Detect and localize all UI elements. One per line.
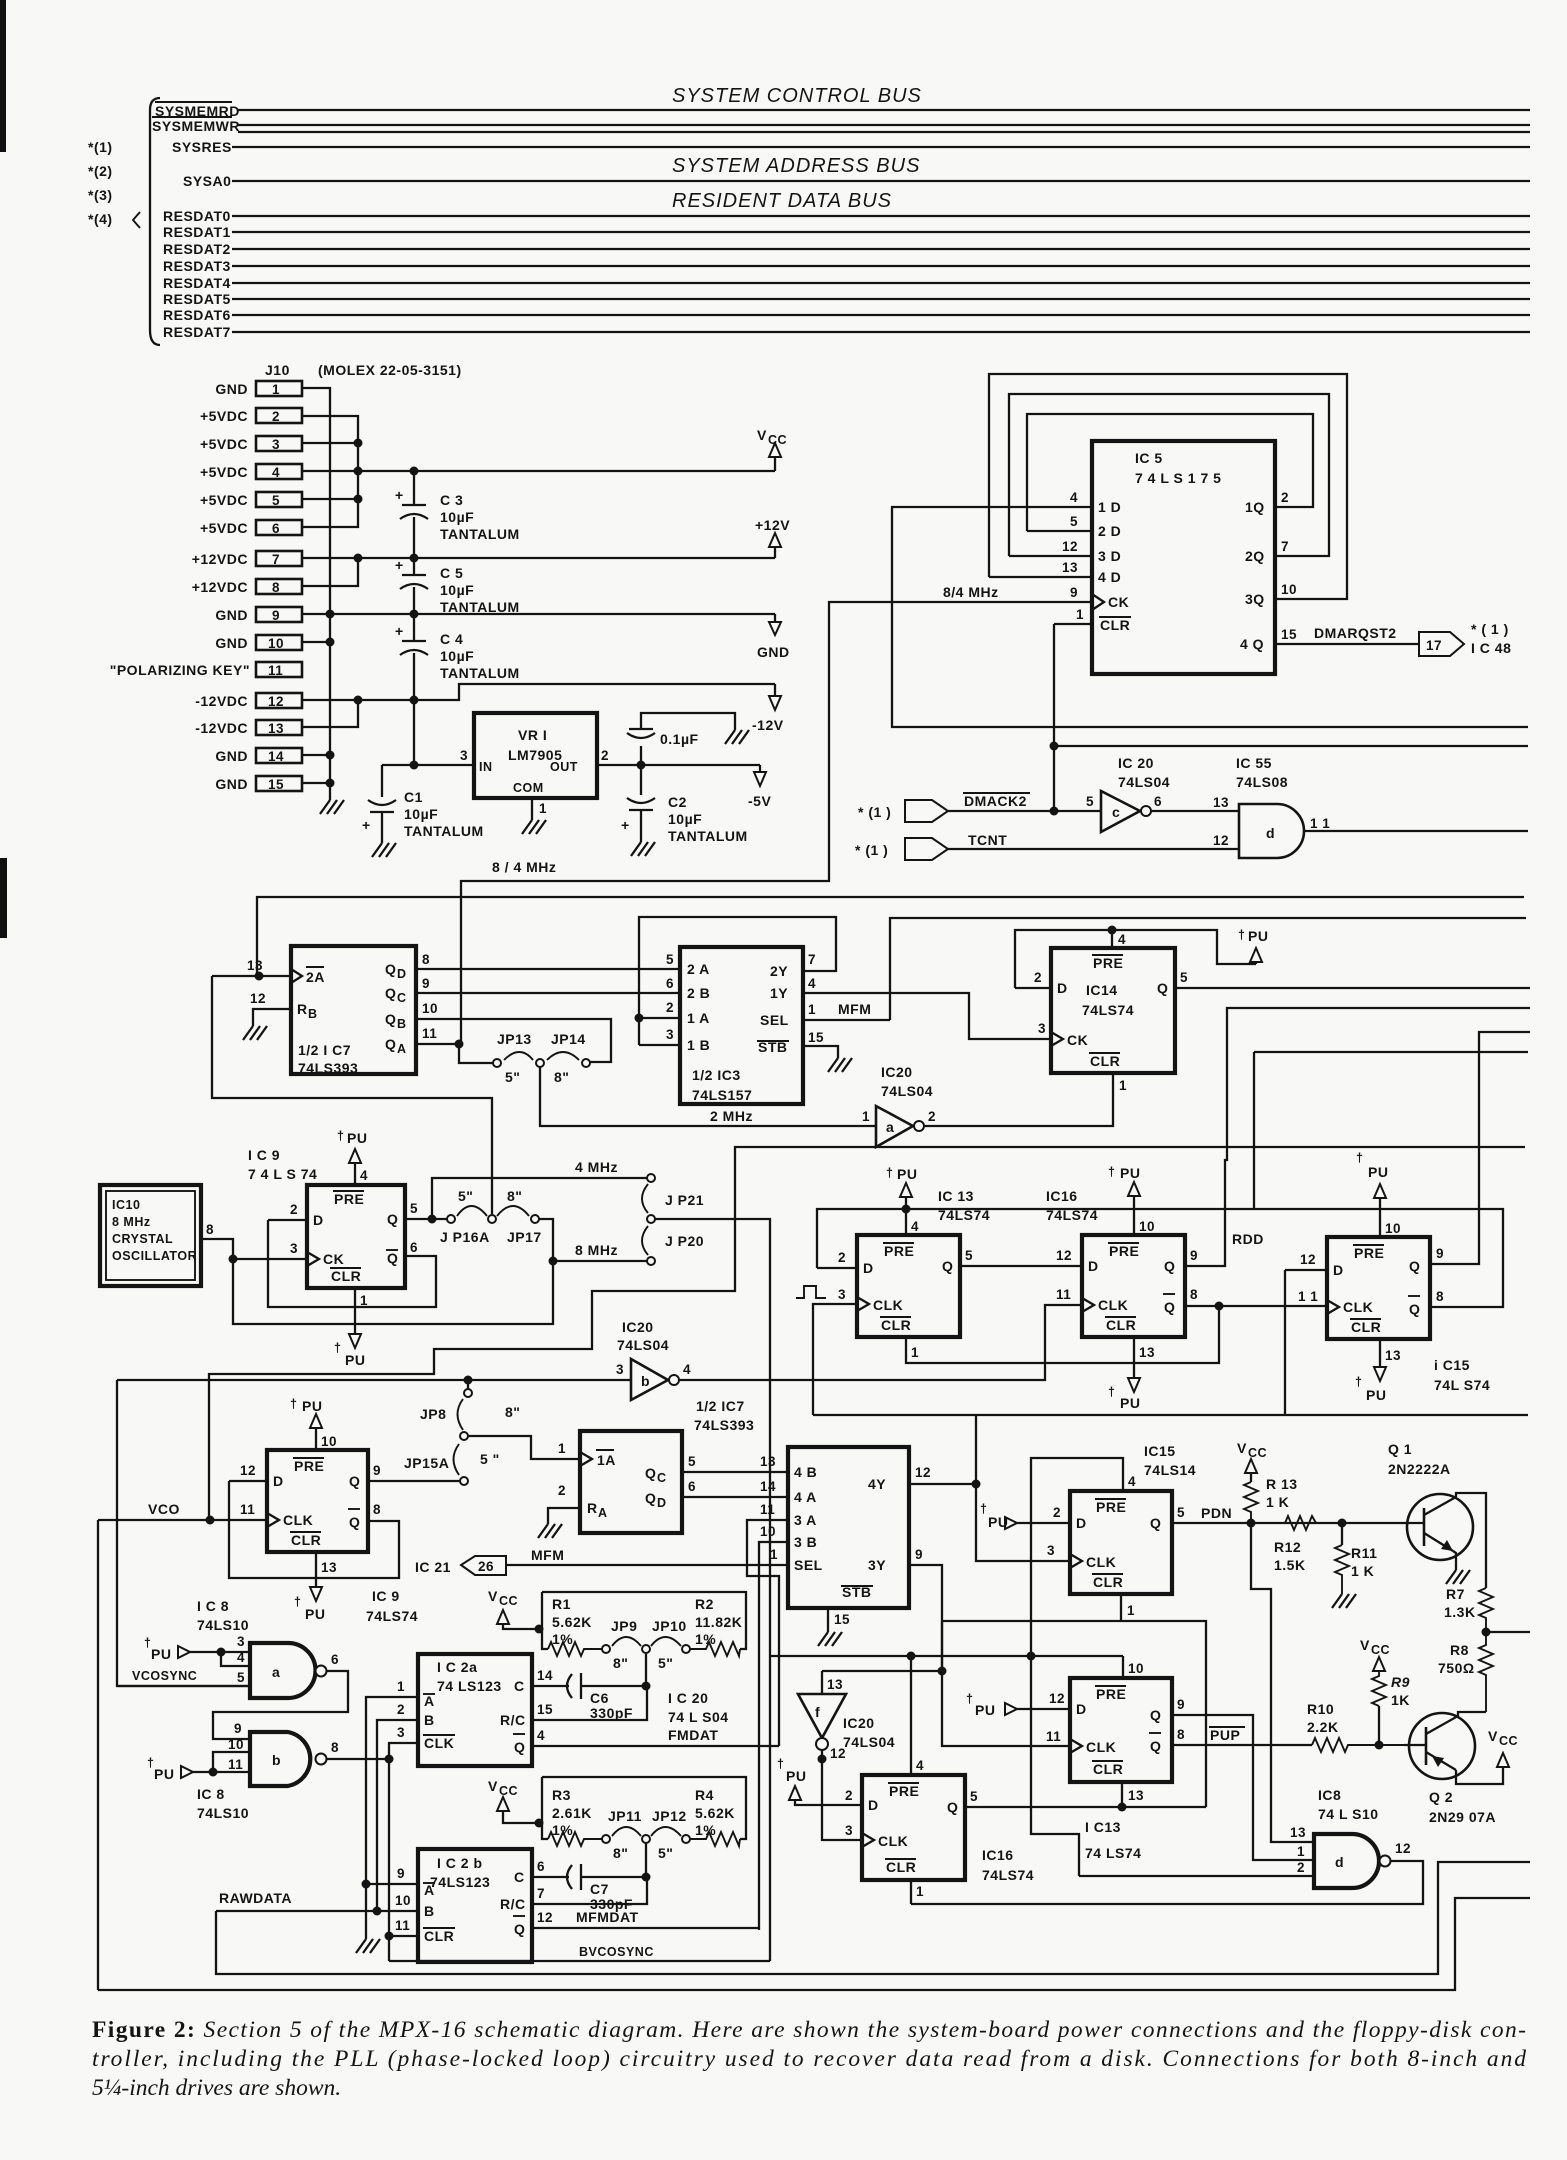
svg-text:R3: R3 — [552, 1787, 571, 1803]
svg-text:1: 1 — [360, 1293, 368, 1308]
bus bracket — [150, 98, 160, 345]
wire -12V trunk — [302, 700, 358, 727]
svg-text:C: C — [657, 1471, 667, 1485]
svg-text:C1: C1 — [404, 789, 423, 805]
svg-text:9: 9 — [272, 608, 280, 623]
pin 1 CLR to IC16 Qbar — [906, 1306, 1219, 1363]
svg-text:1/2 IC7: 1/2 IC7 — [696, 1398, 745, 1414]
svg-text:74LS04: 74LS04 — [617, 1337, 669, 1353]
power VCC arrow — [757, 427, 787, 471]
svg-text:IC16: IC16 — [1046, 1188, 1078, 1204]
svg-text:9: 9 — [1070, 585, 1078, 600]
svg-text:D: D — [1057, 980, 1068, 996]
wire PU-line branch to edge — [1254, 1051, 1528, 1053]
svg-text:1: 1 — [1119, 1078, 1127, 1093]
wire VCO left edge down — [97, 1520, 99, 1990]
svg-text:2: 2 — [1297, 1860, 1305, 1875]
svg-text:IC 5: IC 5 — [1135, 450, 1163, 466]
svg-text:13: 13 — [1385, 1348, 1401, 1363]
wire 1Y to IC14 CK — [803, 993, 1051, 1039]
inverter U20f 74LS04 — [798, 1694, 846, 1738]
svg-text:3: 3 — [838, 1287, 846, 1302]
svg-text:26: 26 — [478, 1559, 494, 1574]
svg-text:2A: 2A — [306, 969, 325, 985]
svg-text:8": 8" — [507, 1188, 522, 1204]
pin 10 PRE stub — [1122, 1656, 1124, 1678]
pin 2 D — [1015, 987, 1051, 989]
wire AND d output — [1304, 830, 1528, 832]
wire R7/R8 node to edge — [1486, 1631, 1530, 1633]
svg-text:750Ω: 750Ω — [1438, 1660, 1475, 1676]
pin 12 3D — [1009, 555, 1092, 557]
svg-text:8/4 MHz: 8/4 MHz — [943, 584, 999, 600]
svg-text:13: 13 — [247, 958, 263, 973]
svg-text:3: 3 — [666, 1027, 674, 1042]
wire Abar ground — [365, 1884, 367, 1939]
svg-text:9: 9 — [397, 1866, 405, 1881]
svg-text:MFMDAT: MFMDAT — [576, 1909, 639, 1925]
svg-text:4: 4 — [808, 976, 816, 991]
wire PRE/PU tie line y1209 — [817, 1209, 1503, 1307]
svg-text:13: 13 — [1128, 1788, 1144, 1803]
wire QA to JP13 — [459, 1044, 493, 1063]
pin 3 CLK — [389, 1743, 418, 1961]
wire long line y897 — [257, 897, 1524, 976]
svg-text:†: † — [290, 1397, 297, 1411]
svg-text:CC: CC — [499, 1594, 518, 1608]
svg-text:SYSTEM CONTROL BUS: SYSTEM CONTROL BUS — [672, 85, 922, 107]
svg-text:J P20: J P20 — [665, 1233, 704, 1249]
pin 6 C — [532, 1876, 569, 1878]
svg-text:8 MHz: 8 MHz — [575, 1242, 618, 1258]
svg-text:IC 20: IC 20 — [1118, 755, 1154, 771]
svg-text:10µF: 10µF — [668, 811, 702, 827]
svg-text:3: 3 — [397, 1725, 405, 1740]
svg-text:7 4 L S 74: 7 4 L S 74 — [248, 1166, 317, 1182]
svg-text:R: R — [587, 1500, 598, 1516]
svg-text:3: 3 — [1038, 1021, 1046, 1036]
capacitor C6 330pF — [567, 1673, 646, 1721]
wire 4Q DMARQST2 — [1275, 643, 1419, 645]
svg-text:1: 1 — [1076, 607, 1084, 622]
svg-text:Q: Q — [349, 1514, 360, 1530]
wire VCO long loop from right — [209, 1147, 1525, 1520]
pin 8 QD — [416, 968, 678, 970]
svg-text:†: † — [294, 1595, 301, 1609]
svg-text:17: 17 — [1426, 638, 1442, 653]
svg-text:8": 8" — [613, 1655, 628, 1671]
svg-text:74LS74: 74LS74 — [1082, 1002, 1134, 1018]
svg-text:Q: Q — [349, 1473, 360, 1489]
ground (RB) — [243, 1026, 267, 1040]
svg-text:5": 5" — [658, 1845, 673, 1861]
svg-text:i C15: i C15 — [1434, 1357, 1470, 1373]
svg-text:TANTALUM: TANTALUM — [440, 599, 520, 615]
jumper JP15A — [460, 1477, 468, 1485]
svg-text:c: c — [1112, 804, 1120, 820]
svg-text:9: 9 — [422, 976, 430, 991]
jumper JP10 — [682, 1645, 690, 1653]
svg-text:B: B — [424, 1712, 435, 1728]
svg-text:D: D — [1088, 1258, 1099, 1274]
jumper JP14 — [582, 1059, 590, 1067]
svg-text:+5VDC: +5VDC — [200, 408, 248, 424]
IC U2b 74LS123 — [418, 1849, 532, 1962]
svg-text:8": 8" — [613, 1845, 628, 1861]
svg-text:CLR: CLR — [1106, 1317, 1136, 1333]
IC U7a 74LS393 — [291, 946, 416, 1074]
svg-text:†: † — [1108, 1385, 1115, 1399]
svg-text:PRE: PRE — [889, 1783, 919, 1799]
svg-text:8: 8 — [422, 952, 430, 967]
wire 2Q to 3D loop — [1009, 394, 1329, 556]
pin 4 1D — [989, 506, 1092, 508]
wire MFM long line y918 — [890, 918, 1526, 1020]
svg-text:13: 13 — [1290, 1825, 1306, 1840]
svg-text:11: 11 — [240, 1502, 255, 1517]
svg-text:1.3K: 1.3K — [1444, 1604, 1476, 1620]
svg-text:V: V — [1237, 1440, 1247, 1456]
svg-text:5.62K: 5.62K — [552, 1614, 592, 1630]
svg-text:PU: PU — [1366, 1387, 1386, 1403]
pin 12 RB — [253, 1009, 291, 1026]
svg-text:†: † — [337, 1129, 344, 1143]
svg-text:1: 1 — [916, 1884, 924, 1899]
svg-text:3: 3 — [845, 1823, 853, 1838]
svg-text:C 4: C 4 — [440, 631, 463, 647]
svg-text:V: V — [1488, 1728, 1498, 1744]
jumper JP17 — [531, 1215, 539, 1223]
svg-text:b: b — [272, 1752, 281, 1768]
svg-text:+: + — [395, 557, 404, 573]
svg-text:1%: 1% — [552, 1822, 573, 1838]
svg-text:4Y: 4Y — [868, 1476, 886, 1492]
NAND U8b 74LS10 — [250, 1732, 310, 1786]
svg-text:Q: Q — [1150, 1738, 1161, 1754]
svg-text:13: 13 — [760, 1454, 776, 1469]
svg-text:V: V — [1360, 1637, 1370, 1653]
svg-text:PRE: PRE — [1093, 955, 1123, 971]
wire STB to ground — [803, 1046, 838, 1058]
svg-text:PU: PU — [897, 1166, 917, 1182]
svg-text:4: 4 — [683, 1362, 691, 1377]
svg-text:4 D: 4 D — [1098, 569, 1121, 585]
svg-text:D: D — [1076, 1515, 1087, 1531]
wire JP9/10 mid to C node — [645, 1653, 647, 1686]
pin 8 Qbar PUP — [1172, 1744, 1312, 1746]
svg-text:CK: CK — [1108, 594, 1129, 610]
IC U3a 74LS157 — [680, 947, 803, 1104]
power -12V arrow down — [752, 684, 784, 733]
wire +12V rail — [302, 557, 775, 559]
svg-text:†: † — [980, 1502, 987, 1516]
svg-text:PU: PU — [347, 1130, 367, 1146]
svg-text:D: D — [1076, 1701, 1087, 1717]
svg-text:*(1): *(1) — [88, 139, 113, 155]
pin 13 4D — [989, 576, 1092, 578]
svg-text:IC 55: IC 55 — [1236, 755, 1272, 771]
svg-text:RESIDENT DATA BUS: RESIDENT DATA BUS — [672, 190, 892, 212]
svg-text:12: 12 — [830, 1746, 846, 1761]
svg-text:1Y: 1Y — [770, 985, 788, 1001]
svg-text:15: 15 — [268, 777, 284, 792]
svg-text:PUP: PUP — [1210, 1727, 1240, 1743]
svg-text:5: 5 — [965, 1248, 973, 1263]
svg-text:Q: Q — [514, 1921, 525, 1937]
capacitor C5 10uF TANTALUM — [395, 557, 520, 615]
svg-text:12: 12 — [240, 1463, 256, 1478]
svg-text:CLR: CLR — [1093, 1574, 1123, 1590]
capacitor C4 10uF TANTALUM — [395, 614, 520, 700]
svg-text:2Q: 2Q — [1245, 548, 1265, 564]
svg-text:4 Q: 4 Q — [1240, 636, 1264, 652]
svg-text:IN: IN — [479, 760, 493, 774]
svg-text:A: A — [424, 1882, 435, 1898]
svg-text:I C 2 b: I C 2 b — [437, 1855, 483, 1871]
power VCC (R1 net) — [488, 1588, 544, 1634]
svg-text:A: A — [397, 1042, 407, 1056]
pin 4 PRE — [1111, 930, 1113, 948]
jumper JP20 — [647, 1257, 655, 1265]
svg-text:IC16: IC16 — [982, 1847, 1014, 1863]
svg-text:5: 5 — [1070, 514, 1078, 529]
connector J10 pin 4 — [256, 464, 302, 479]
svg-text:J10: J10 — [265, 362, 290, 378]
svg-text:CLR: CLR — [331, 1268, 361, 1284]
wire inverter a out to IC14 CLR — [924, 1073, 1113, 1126]
resistor R8 750ohm — [1438, 1632, 1493, 1712]
connector J10 pin 8 — [256, 579, 302, 594]
svg-text:12: 12 — [1056, 1248, 1072, 1263]
pin 4 PRE + PU — [337, 1129, 368, 1185]
jumper JP11 — [602, 1835, 610, 1843]
svg-text:4: 4 — [360, 1168, 368, 1183]
svg-text:C 5: C 5 — [440, 565, 463, 581]
svg-text:†: † — [886, 1166, 893, 1180]
wire VCOSYNC/b-input line — [117, 1379, 631, 1381]
svg-text:C: C — [514, 1869, 525, 1885]
svg-text:9: 9 — [915, 1547, 923, 1562]
svg-text:R8: R8 — [1450, 1642, 1469, 1658]
connector J10 pin 7 — [256, 551, 302, 566]
pin 12 Qbar MFMDAT — [532, 1927, 759, 1929]
svg-text:Q: Q — [385, 961, 396, 977]
svg-text:11: 11 — [228, 1757, 243, 1772]
wire Q5 up to 74LS14 CLR — [942, 1621, 1206, 1807]
svg-text:IC20: IC20 — [622, 1319, 654, 1335]
svg-text:PRE: PRE — [1109, 1243, 1139, 1259]
svg-text:PU: PU — [345, 1352, 365, 1368]
svg-text:PRE: PRE — [1096, 1499, 1126, 1515]
svg-text:4: 4 — [272, 465, 280, 480]
svg-text:4: 4 — [1128, 1474, 1136, 1489]
pin 5 Q — [1175, 987, 1530, 989]
svg-text:VR I: VR I — [518, 727, 547, 743]
wire CLK from 4Y line — [813, 1304, 857, 1415]
svg-text:GND: GND — [215, 607, 248, 623]
jumper JP21 — [647, 1174, 655, 1182]
wire 4Y branch — [909, 1483, 976, 1485]
connector J10 pin 15 — [256, 776, 302, 791]
svg-text:1: 1 — [862, 1109, 870, 1124]
scan edge artifact top-left — [0, 0, 6, 152]
svg-text:10: 10 — [395, 1893, 411, 1908]
svg-text:+12V: +12V — [755, 517, 790, 533]
svg-text:RESDAT7: RESDAT7 — [163, 324, 231, 340]
svg-text:CLK: CLK — [878, 1833, 908, 1849]
svg-text:CLR: CLR — [1093, 1761, 1123, 1777]
svg-text:1: 1 — [1297, 1844, 1305, 1859]
svg-text:GND: GND — [215, 635, 248, 651]
wire OUT row — [597, 764, 760, 766]
svg-text:5: 5 — [970, 1789, 978, 1804]
pin 12 D — [229, 1480, 267, 1482]
svg-text:12: 12 — [537, 1910, 553, 1925]
svg-text:9: 9 — [234, 1721, 242, 1736]
svg-text:OSCILLATOR: OSCILLATOR — [112, 1249, 197, 1263]
pin 2 1A — [639, 1017, 680, 1019]
svg-text:+: + — [362, 817, 371, 833]
svg-text:12: 12 — [1062, 539, 1078, 554]
svg-text:3: 3 — [460, 748, 468, 763]
svg-text:1.5K: 1.5K — [1274, 1557, 1306, 1573]
svg-text:†: † — [334, 1341, 341, 1355]
svg-text:CLR: CLR — [886, 1859, 916, 1875]
svg-text:74LS04: 74LS04 — [1118, 774, 1170, 790]
svg-text:CLR: CLR — [424, 1928, 454, 1944]
svg-text:IC14: IC14 — [1086, 982, 1118, 998]
svg-text:74LS74: 74LS74 — [1046, 1207, 1098, 1223]
svg-text:SYSA0: SYSA0 — [183, 173, 231, 189]
IC U16b 74LS74 — [862, 1775, 965, 1880]
svg-text:C: C — [397, 991, 407, 1005]
svg-text:74LS123: 74LS123 — [430, 1874, 490, 1890]
resistor R10 2.2K — [1307, 1701, 1404, 1752]
svg-text:Q: Q — [387, 1211, 398, 1227]
svg-text:8: 8 — [1436, 1289, 1444, 1304]
svg-text:8: 8 — [272, 580, 280, 595]
svg-text:10: 10 — [1385, 1221, 1401, 1236]
jumper JP9 — [602, 1645, 610, 1653]
svg-text:7: 7 — [537, 1886, 545, 1901]
svg-text:Q: Q — [385, 1036, 396, 1052]
svg-text:PU: PU — [786, 1768, 806, 1784]
svg-text:CLK: CLK — [1086, 1739, 1116, 1755]
IC U3b 74LS157 — [788, 1447, 909, 1608]
pin 1 Abar — [366, 1697, 418, 1884]
svg-text:10µF: 10µF — [440, 582, 474, 598]
ground (Q1 emitter) — [1446, 1570, 1470, 1584]
pin 5 Q — [960, 1265, 1082, 1267]
svg-text:JP14: JP14 — [551, 1031, 586, 1047]
svg-text:J P21: J P21 — [665, 1192, 704, 1208]
wire pin2 from PRE net — [1031, 1656, 1079, 1876]
pin 10 PRE + PU — [1108, 1165, 1155, 1235]
svg-text:3: 3 — [616, 1362, 624, 1377]
ground (C1) — [372, 843, 396, 857]
svg-text:74 LS123: 74 LS123 — [437, 1678, 502, 1694]
pin 8 Qbar to D loop — [229, 1481, 399, 1578]
svg-text:CLK: CLK — [283, 1512, 313, 1528]
svg-text:14: 14 — [537, 1668, 553, 1683]
resistor R12 1.5K — [1274, 1516, 1324, 1573]
svg-text:CRYSTAL: CRYSTAL — [112, 1232, 173, 1246]
svg-text:5": 5" — [458, 1188, 473, 1204]
svg-text:1%: 1% — [695, 1631, 716, 1647]
svg-text:4: 4 — [1070, 490, 1078, 505]
wire RESDAT0 — [232, 215, 1530, 217]
wire b output to IC16 CLK — [679, 1305, 1082, 1380]
svg-text:2: 2 — [601, 748, 609, 763]
svg-text:8": 8" — [554, 1069, 569, 1085]
svg-text:* (1 ): * (1 ) — [858, 804, 891, 820]
connector J10 pin 2 — [256, 408, 302, 423]
svg-text:A: A — [598, 1506, 608, 1520]
svg-text:†: † — [777, 1757, 784, 1771]
svg-text:3 A: 3 A — [794, 1512, 817, 1528]
pin 5 Q — [405, 1218, 449, 1220]
wire RDD net — [1185, 1008, 1530, 1266]
wire -12V rail — [302, 684, 775, 700]
pin 1 CLR + PU down — [334, 1288, 368, 1368]
svg-text:12: 12 — [1395, 1841, 1411, 1856]
pin 10 3B — [759, 1542, 788, 1930]
svg-text:4: 4 — [237, 1650, 245, 1665]
svg-text:7: 7 — [808, 952, 816, 967]
svg-text:3: 3 — [1047, 1543, 1055, 1558]
svg-text:GND: GND — [215, 776, 248, 792]
connector J10 pin 9 — [256, 607, 302, 622]
pin 7 R/C — [532, 1877, 647, 1904]
svg-text:CLK: CLK — [873, 1297, 903, 1313]
pin 4 PRE stub — [910, 1656, 912, 1775]
svg-text:VCO: VCO — [148, 1501, 180, 1517]
svg-text:CLK: CLK — [1098, 1297, 1128, 1313]
svg-text:10: 10 — [1139, 1219, 1155, 1234]
svg-text:a: a — [272, 1664, 280, 1680]
capacitor C7 330pF — [567, 1864, 646, 1912]
svg-text:2: 2 — [838, 1250, 846, 1265]
svg-text:CLR: CLR — [881, 1317, 911, 1333]
svg-text:PU: PU — [151, 1646, 171, 1662]
svg-text:2: 2 — [272, 409, 280, 424]
svg-text:2: 2 — [397, 1702, 405, 1717]
svg-text:74L S74: 74L S74 — [1434, 1377, 1490, 1393]
wire f out to IC16b D — [822, 1759, 862, 1840]
svg-text:12: 12 — [1213, 833, 1229, 848]
wire GND trunk — [302, 388, 330, 800]
svg-text:3Y: 3Y — [868, 1557, 886, 1573]
pin 2 B — [377, 1720, 418, 1911]
svg-text:2: 2 — [290, 1202, 298, 1217]
wire VCO row — [98, 1519, 267, 1521]
svg-text:1 A: 1 A — [687, 1010, 710, 1026]
svg-text:CLK: CLK — [1086, 1554, 1116, 1570]
svg-text:2: 2 — [666, 1000, 674, 1015]
svg-text:12: 12 — [915, 1465, 931, 1480]
svg-text:15: 15 — [1281, 627, 1297, 642]
wire BVCOSYNC — [389, 1960, 770, 1962]
svg-text:+5VDC: +5VDC — [200, 492, 248, 508]
svg-text:I C 9: I C 9 — [248, 1147, 280, 1163]
ground (RA) — [538, 1524, 562, 1538]
pullup PU (IC13 PRE) — [886, 1166, 917, 1209]
svg-text:R1: R1 — [552, 1596, 571, 1612]
svg-text:2 MHz: 2 MHz — [710, 1108, 753, 1124]
regulator VR1 LM7905 — [474, 713, 597, 798]
svg-text:6: 6 — [537, 1859, 545, 1874]
power GND arrow down — [757, 614, 790, 660]
